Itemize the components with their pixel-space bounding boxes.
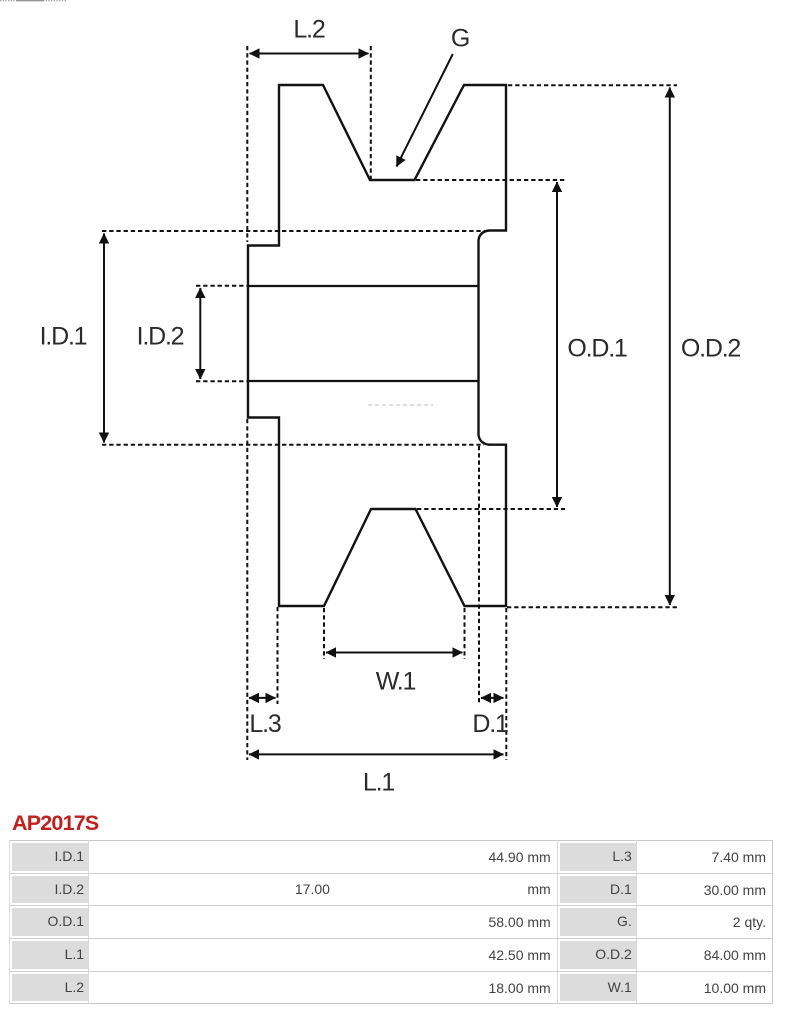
svg-text:I.D.2: I.D.2 — [137, 323, 184, 351]
dimension I.D.2 — [199, 288, 201, 379]
dimension O.D.1 — [556, 182, 558, 507]
bore top line — [248, 285, 479, 287]
extension line L.3 right — [277, 607, 279, 704]
dimension W.1 — [326, 652, 463, 654]
extension line L.1 left — [246, 419, 248, 760]
extension line L.1 right — [505, 608, 507, 760]
leader arrow G — [397, 54, 453, 167]
extension line W.1 right — [464, 608, 466, 659]
specification table — [9, 840, 773, 1004]
extension line D.1 left — [478, 446, 480, 704]
dimension L.2 — [250, 53, 369, 55]
pulley outline — [248, 85, 506, 606]
svg-text:O.D.1: O.D.1 — [567, 335, 627, 363]
svg-text:I.D.1: I.D.1 — [40, 323, 87, 351]
reference line O.D.1 top — [416, 179, 565, 181]
dimension L.3 — [249, 697, 276, 699]
svg-text:L.1: L.1 — [363, 769, 394, 797]
dimension I.D.1 — [103, 234, 105, 443]
svg-text:D.1: D.1 — [472, 710, 508, 738]
faint center line — [368, 404, 433, 406]
reference line O.D.2 bottom — [507, 606, 677, 608]
svg-text:W.1: W.1 — [376, 668, 416, 696]
dimension D.1 — [481, 697, 504, 699]
reference line I.D.1 bottom — [102, 444, 484, 446]
extension line L.2 right — [370, 46, 372, 179]
svg-text:G: G — [451, 25, 469, 53]
svg-text:O.D.2: O.D.2 — [681, 335, 741, 363]
product code heading — [12, 811, 98, 836]
dimension L.1 — [249, 753, 504, 755]
svg-text:L.2: L.2 — [293, 16, 324, 44]
extension line L.2 left — [246, 46, 248, 242]
reference line O.D.1 bottom — [417, 508, 565, 510]
svg-text:L.3: L.3 — [249, 710, 280, 738]
extension line W.1 left — [323, 608, 325, 659]
reference line I.D.1 top — [102, 230, 487, 232]
reference line O.D.2 top — [508, 84, 677, 86]
reference line I.D.2 top — [196, 285, 248, 287]
cropped thumbnail border fragment top-left — [0, 0, 66, 2]
bore bottom line — [248, 380, 479, 382]
dimension O.D.2 — [669, 88, 671, 606]
reference line I.D.2 bottom — [196, 380, 248, 382]
